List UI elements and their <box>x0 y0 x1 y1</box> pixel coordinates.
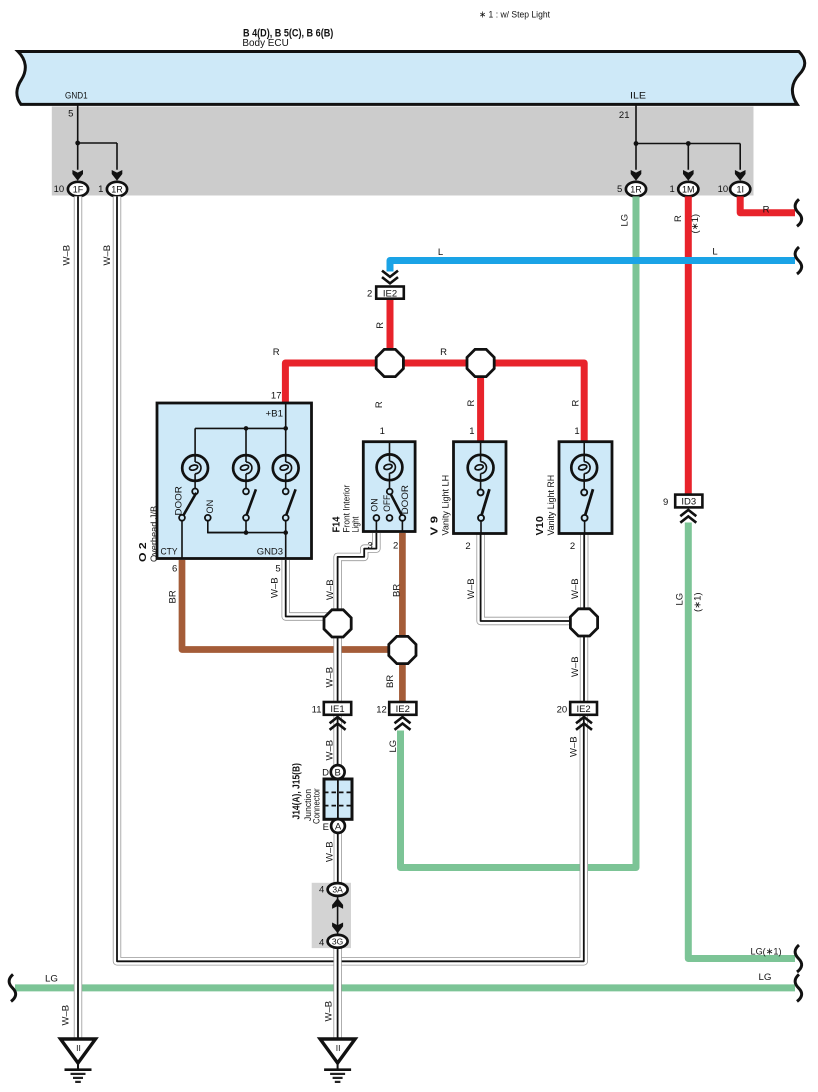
arrow into 1R left <box>112 170 123 181</box>
wire R from 1I to right edge <box>740 196 795 212</box>
wire R horizontal +B1 to V10 <box>285 363 584 442</box>
wire W-B junction to IE1 pin 11 <box>333 635 341 702</box>
svg-text:R: R <box>440 347 447 358</box>
svg-text:R: R <box>570 400 581 407</box>
svg-text:1: 1 <box>380 426 385 437</box>
svg-text:2: 2 <box>367 288 372 299</box>
F14 bulb <box>377 454 403 480</box>
svg-text:GND1: GND1 <box>65 91 88 102</box>
wire ILE internal branch <box>636 104 740 170</box>
svg-text:W–B: W–B <box>61 1005 72 1026</box>
O2 bottom bus dot 2 <box>283 530 288 535</box>
oval connector 3A <box>328 883 348 896</box>
break symbol LG(*1) right <box>795 945 802 972</box>
svg-text:DOOR: DOOR <box>400 485 411 514</box>
junction octagon W-B below O2/F14 <box>324 610 351 637</box>
svg-text:IE2: IE2 <box>383 288 397 299</box>
arrow into 1I <box>735 170 746 181</box>
connector box IE1 pin 11 <box>324 702 351 715</box>
svg-text:Light: Light <box>351 516 362 532</box>
svg-text:R: R <box>763 205 770 216</box>
svg-text:W–B: W–B <box>270 577 281 598</box>
svg-text:II: II <box>76 1043 81 1053</box>
svg-text:J14(A), J15(B): J14(A), J15(B) <box>292 763 303 819</box>
svg-text:5: 5 <box>275 564 280 575</box>
junction octagon R at F14 feed <box>376 349 403 376</box>
junction dot ILE branch 2 <box>686 141 691 146</box>
O2 bulb 3 <box>273 455 299 481</box>
ground symbol center <box>320 1039 355 1082</box>
O2 bulb 1 <box>182 455 208 481</box>
connector box IE2 pin 12 <box>389 702 416 715</box>
wire R branch to V9 pin 1 <box>477 363 484 442</box>
svg-text:W–B: W–B <box>325 740 336 761</box>
svg-text:ON: ON <box>370 498 381 511</box>
O2 bottom bus to GND3 <box>208 533 286 558</box>
svg-text:3G: 3G <box>332 936 343 946</box>
svg-text:D: D <box>322 768 329 779</box>
wire W-B from IE1 to junction connector B <box>333 715 341 767</box>
junction connector circle B <box>331 765 345 779</box>
svg-text:Vanity Light LH: Vanity Light LH <box>441 475 451 536</box>
O2 bulb 2 <box>233 455 259 481</box>
oval connector 1F <box>68 182 88 197</box>
lamp box F14 Front Interior Light <box>363 442 415 532</box>
svg-text:LG: LG <box>388 740 399 753</box>
connector arrow IE1 (up) <box>330 717 346 730</box>
svg-text:W–B: W–B <box>102 245 113 266</box>
O2 switch contact ON <box>205 515 246 533</box>
junction octagon BR <box>389 636 416 663</box>
gray panel behind 3A/3G connectors <box>312 883 351 948</box>
svg-text:4: 4 <box>319 937 324 948</box>
svg-text:2: 2 <box>570 541 575 552</box>
svg-text:V 9: V 9 <box>430 516 441 536</box>
ground symbol left <box>61 1039 96 1082</box>
break symbol LG bottom left <box>9 974 16 1001</box>
connector box IE2 pin 20 <box>570 702 597 715</box>
svg-text:LG(∗1): LG(∗1) <box>751 947 782 958</box>
svg-text:W–B: W–B <box>325 841 336 862</box>
lamp box V9 Vanity Light LH <box>454 442 507 534</box>
svg-text:1M: 1M <box>682 184 695 194</box>
O2 bottom bus dot 1 <box>244 530 249 535</box>
oval connector 1I <box>730 182 750 197</box>
svg-text:6: 6 <box>172 564 177 575</box>
svg-text:LG: LG <box>620 214 631 227</box>
svg-text:W–B: W–B <box>325 579 336 600</box>
V9 bulb <box>468 455 494 481</box>
svg-text:R: R <box>273 347 280 358</box>
arrow into 1M <box>683 170 694 181</box>
svg-text:∗ 1 : w/ Step Light: ∗ 1 : w/ Step Light <box>479 10 550 21</box>
wire BR from F14 pin 2 through junction to IE2 pin 12 <box>399 533 406 702</box>
break symbol blue L right <box>795 247 802 274</box>
arrow into 1R right <box>631 170 642 181</box>
svg-text:W–B: W–B <box>570 656 581 677</box>
svg-text:BR: BR <box>392 584 403 597</box>
svg-text:LG: LG <box>45 974 58 985</box>
wire BR from O2 CTY pin 6 to junction <box>182 560 402 650</box>
svg-text:3: 3 <box>368 540 373 551</box>
V10 bulb <box>571 455 597 481</box>
wire LG from ID3 to right edge (LG *1) <box>688 523 795 959</box>
svg-text:1: 1 <box>469 426 474 437</box>
wire GND1 internal branch <box>78 104 117 170</box>
svg-text:L: L <box>712 247 717 258</box>
svg-text:CTY: CTY <box>161 547 179 558</box>
svg-text:Vanity Light RH: Vanity Light RH <box>546 475 556 536</box>
V10 pin1 lead <box>583 442 585 455</box>
svg-text:W–B: W–B <box>570 578 581 599</box>
svg-text:IE1: IE1 <box>330 704 344 715</box>
svg-text:(∗1): (∗1) <box>693 592 704 612</box>
V10 switch (open) <box>581 481 593 534</box>
junction dot GND1 branch <box>75 141 80 146</box>
connector arrow ID3 (up) <box>680 510 696 523</box>
svg-text:E: E <box>323 822 329 833</box>
svg-text:Overhead J/B: Overhead J/B <box>149 506 160 562</box>
V9 pin1 lead <box>480 442 482 455</box>
svg-text:A: A <box>335 822 342 833</box>
junction connector circle A <box>331 819 345 833</box>
break symbol LG bottom right <box>795 974 802 1001</box>
svg-text:1R: 1R <box>111 184 123 194</box>
wire W-B from 1R to IE2 pin 20 <box>117 196 584 961</box>
wire W-B from 1F to left ground <box>74 196 82 1037</box>
connector box IE2 pin 2 <box>376 287 404 300</box>
svg-text:V10: V10 <box>535 516 546 536</box>
oval connector 3G <box>328 935 348 948</box>
svg-text:1: 1 <box>98 184 103 195</box>
junction dot ILE branch 1 <box>634 141 639 146</box>
svg-text:BR: BR <box>385 675 396 688</box>
O2 bus dot 1 <box>244 426 249 431</box>
wire W-B from F14 pin 3 to junction <box>338 533 377 612</box>
svg-text:5: 5 <box>68 109 73 120</box>
svg-text:17: 17 <box>271 391 282 402</box>
svg-text:OFF: OFF <box>382 495 393 512</box>
svg-text:LG: LG <box>759 972 772 983</box>
svg-text:R: R <box>466 400 477 407</box>
svg-text:II: II <box>336 1043 341 1053</box>
O2 bus dot 2 <box>283 426 288 431</box>
O2 switch 1 DOOR (closed) <box>179 481 198 558</box>
svg-text:L: L <box>438 247 443 258</box>
svg-text:W–B: W–B <box>62 245 73 266</box>
O2 internal wiring bus <box>195 403 286 455</box>
wire R from 1M to ID3 <box>685 196 692 494</box>
svg-text:W–B: W–B <box>466 578 477 599</box>
svg-text:20: 20 <box>557 705 568 716</box>
svg-text:2: 2 <box>393 540 398 551</box>
junction octagon W-B below vanity lights <box>570 609 597 636</box>
wire W-B from 3G to center ground <box>333 947 341 1038</box>
wire R main net from IE2 pin 2 <box>387 298 394 363</box>
svg-text:B: B <box>335 768 341 779</box>
svg-text:1F: 1F <box>73 184 84 194</box>
svg-text:IE2: IE2 <box>576 704 590 715</box>
oval connector 1R left <box>107 182 127 197</box>
svg-text:1R: 1R <box>630 184 642 194</box>
svg-text:ILE: ILE <box>630 91 646 102</box>
arrow into 1F <box>72 170 83 181</box>
svg-text:R: R <box>673 215 684 222</box>
mating arrows between 3A and 3G <box>332 896 343 935</box>
wire W-B from O2 GND3 pin 5 to junction <box>286 560 328 617</box>
junction connector J14/J15 box <box>324 779 352 819</box>
V9 switch (open) <box>478 481 490 534</box>
svg-text:+B1: +B1 <box>266 409 284 420</box>
wire LG bottom horizontal <box>15 984 795 991</box>
connector strip gray band under Body ECU <box>52 107 754 196</box>
oval connector 1R right <box>626 182 646 197</box>
svg-text:5: 5 <box>617 184 622 195</box>
connector arrow IE2 pin 12 (up) <box>395 717 411 730</box>
svg-text:10: 10 <box>54 184 65 195</box>
break symbol red R right <box>795 199 802 226</box>
svg-text:R: R <box>375 322 386 329</box>
svg-text:Connector: Connector <box>312 788 322 824</box>
wire W-B from junction connector A to 3A <box>334 832 342 884</box>
wire W-B from V9 pin 2 to junction <box>481 533 573 621</box>
svg-text:10: 10 <box>718 184 729 195</box>
svg-text:O 2: O 2 <box>138 542 149 562</box>
Body ECU bar <box>17 52 805 105</box>
F14 pin1 lead <box>389 442 391 455</box>
svg-text:9: 9 <box>663 497 668 508</box>
svg-text:(∗1): (∗1) <box>690 214 701 234</box>
svg-text:1: 1 <box>670 184 675 195</box>
svg-text:21: 21 <box>619 110 630 121</box>
connector arrow IE2 pin 20 (up) <box>576 717 592 730</box>
svg-text:W–B: W–B <box>324 1001 335 1022</box>
svg-text:4: 4 <box>319 885 324 896</box>
connector arrow IE2 pin 2 (down) <box>382 271 398 284</box>
svg-text:1I: 1I <box>736 184 744 194</box>
op box Overhead J/B O2 <box>157 403 312 559</box>
svg-text:BR: BR <box>168 590 179 603</box>
wire LG from 1R to IE2 pin 12 <box>401 196 637 867</box>
lamp box V10 Vanity Light RH <box>559 442 612 534</box>
O2 switch 3 (open) <box>283 481 296 533</box>
svg-text:1: 1 <box>574 426 579 437</box>
svg-text:ID3: ID3 <box>681 497 696 508</box>
svg-text:11: 11 <box>312 705 322 716</box>
svg-text:2: 2 <box>465 541 470 552</box>
junction octagon R at V9 feed <box>467 349 494 376</box>
svg-text:W–B: W–B <box>569 736 580 757</box>
oval connector 1M <box>678 182 698 197</box>
svg-text:GND3: GND3 <box>257 547 283 558</box>
svg-text:LG: LG <box>675 593 686 606</box>
svg-text:DOOR: DOOR <box>174 486 185 515</box>
O2 switch 2 (open) <box>243 481 256 533</box>
wire W-B from V10 pin 2 to junction <box>580 533 588 610</box>
svg-text:IE2: IE2 <box>396 704 410 715</box>
wire L blue horizontal to IE2 pin 2 <box>390 261 795 272</box>
svg-text:3A: 3A <box>332 885 343 895</box>
svg-text:12: 12 <box>376 705 387 716</box>
wire W-B junction to IE2 pin 20 <box>580 634 588 702</box>
svg-text:Body ECU: Body ECU <box>242 38 288 49</box>
svg-text:ON: ON <box>205 500 216 514</box>
svg-text:R: R <box>374 401 385 408</box>
connector box ID3 pin 9 <box>675 495 702 508</box>
svg-text:W–B: W–B <box>325 667 336 688</box>
F14 switch (closed on DOOR) <box>374 480 406 531</box>
